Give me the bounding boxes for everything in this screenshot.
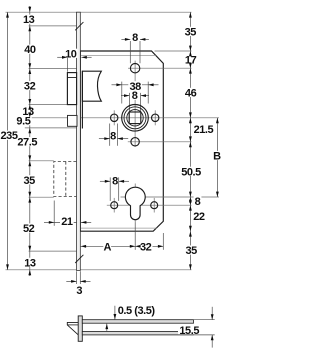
svg-text:46: 46 <box>185 87 197 99</box>
dimension 3 faceplate width <box>76 271 78 284</box>
svg-text:50.5: 50.5 <box>181 166 201 178</box>
dimension 235 chain line <box>7 12 9 270</box>
arrow 13-40 boundary <box>28 26 31 31</box>
extension line dead bolt top <box>29 160 54 162</box>
extension line latch top <box>29 68 77 70</box>
svg-text:27.5: 27.5 <box>17 137 37 149</box>
left cylinder side hole <box>111 202 118 209</box>
svg-text:235: 235 <box>0 130 17 142</box>
extension line upper screw hole <box>29 25 77 27</box>
dimension 0.5 (3.5) <box>114 306 116 320</box>
arrow 9.5 bottom outside <box>28 128 31 133</box>
dimension 8 left follower hole <box>109 124 111 146</box>
svg-text:13: 13 <box>24 257 36 269</box>
case inner wall bottom <box>81 227 157 229</box>
follower centreline <box>29 117 219 119</box>
svg-text:A: A <box>103 241 111 253</box>
extension line 9.5 lower <box>25 127 77 129</box>
side view latch bolt wedge <box>67 322 78 334</box>
dimension 32 cylinder to edge <box>135 245 163 247</box>
arrow 13 bottom outside <box>28 270 31 275</box>
svg-text:35: 35 <box>24 175 36 187</box>
case inner wall top <box>81 54 156 56</box>
arrow 35 top <box>28 161 31 166</box>
arrow 35 top <box>189 12 192 17</box>
top fixing hole D8 <box>130 63 139 72</box>
side view top case plate <box>82 320 193 324</box>
svg-text:8: 8 <box>195 196 201 208</box>
right cylinder side hole <box>151 202 158 209</box>
svg-text:35: 35 <box>186 245 198 257</box>
latch bolt bevel line <box>67 77 76 79</box>
dimension B chain line <box>216 118 218 197</box>
arrow B bottom <box>216 192 219 197</box>
svg-text:8: 8 <box>110 130 116 142</box>
arrow 13 top outside <box>28 7 31 12</box>
left dimension chain line <box>29 6 31 270</box>
arrow 32 top <box>28 69 31 74</box>
arrow 235 top <box>6 12 9 17</box>
right follower side hole <box>152 114 159 121</box>
right follower hole vertical tick <box>154 110 156 125</box>
top hole centreline <box>128 67 192 69</box>
bottom follower hole D8 <box>131 138 139 146</box>
euro profile cylinder hole <box>125 187 145 220</box>
svg-text:9.5: 9.5 <box>16 116 30 128</box>
svg-text:32: 32 <box>24 80 36 92</box>
side view bottom case plate <box>82 331 193 335</box>
svg-text:8: 8 <box>132 32 138 44</box>
left cylinder hole vertical tick <box>113 198 115 213</box>
follower middle circle <box>124 107 146 129</box>
extension line case top right <box>155 50 192 52</box>
svg-text:8: 8 <box>132 90 138 102</box>
bottom hole centreline <box>128 141 192 143</box>
latch body inside case <box>82 71 101 101</box>
faceplate screw hole slash upper <box>75 22 83 30</box>
dimension 8 spindle square <box>128 93 130 112</box>
svg-text:32: 32 <box>140 241 152 253</box>
faceplate front view <box>77 12 81 270</box>
arrow 52 top <box>28 197 31 202</box>
dead bolt thrown dashed outline <box>54 162 77 197</box>
arrow 35 bottom <box>189 264 192 269</box>
follower square spindle hole 8 <box>129 112 141 124</box>
svg-text:15.5: 15.5 <box>179 325 199 337</box>
arrow 27.5 bottom <box>28 155 31 160</box>
svg-text:8: 8 <box>112 175 118 187</box>
dead bolt head line dashed <box>65 162 67 197</box>
svg-text:22: 22 <box>193 211 205 223</box>
right dimension chain line <box>189 12 191 270</box>
dimension 15.5 <box>194 319 215 321</box>
extension line faceplate bottom <box>6 269 192 271</box>
arrow 40 bottom <box>28 63 31 68</box>
extension line faceplate top <box>6 11 192 13</box>
svg-text:0.5 (3.5): 0.5 (3.5) <box>118 305 156 317</box>
cylinder centreline horizontal <box>121 196 220 198</box>
svg-text:13: 13 <box>23 14 35 26</box>
svg-text:35: 35 <box>185 26 197 38</box>
auxiliary bolt rectangle at follower level <box>68 115 78 126</box>
arrow B top <box>216 118 219 123</box>
svg-text:B: B <box>213 150 221 162</box>
left follower side hole <box>111 114 118 121</box>
svg-text:3: 3 <box>76 285 82 297</box>
svg-text:17: 17 <box>185 55 197 67</box>
dimension A backset <box>134 223 136 250</box>
svg-text:21: 21 <box>61 216 73 228</box>
dimension 10 latch projection <box>66 54 68 72</box>
svg-text:21.5: 21.5 <box>194 124 214 136</box>
arrow 13 second bottom <box>28 112 31 117</box>
svg-text:40: 40 <box>24 44 36 56</box>
arrow 235 bottom <box>6 264 9 269</box>
follower inner circle <box>127 110 143 126</box>
latch bolt face <box>67 73 76 105</box>
dimension 38 follower <box>121 82 123 104</box>
vertical centreline cylinder <box>134 184 136 223</box>
extension line lower screw hole <box>29 250 77 252</box>
latch guide vertical line <box>81 71 83 129</box>
arrow 35 bottom <box>28 192 31 197</box>
arrow 32 bottom <box>28 99 31 104</box>
extension line dead bolt bottom <box>29 196 54 198</box>
cylinder side holes centreline <box>107 204 192 206</box>
vertical centreline upper <box>134 61 136 147</box>
follower outer circle D38 <box>122 105 149 132</box>
dimension 8 top hole <box>129 41 131 63</box>
lock case outline <box>80 51 163 231</box>
dimension 8 cylinder side hole <box>109 177 111 201</box>
dimension 21 dead bolt <box>53 201 55 226</box>
arrow 52 bottom <box>28 246 31 251</box>
extension line latch bottom <box>29 103 68 105</box>
right cylinder hole vertical tick <box>153 198 155 213</box>
left follower hole vertical tick <box>113 110 115 125</box>
faceplate screw hole slash lower <box>75 255 83 263</box>
side view faceplate bar <box>78 316 82 341</box>
svg-text:10: 10 <box>65 48 77 60</box>
svg-text:52: 52 <box>23 223 35 235</box>
arrow 13 second top <box>28 104 31 109</box>
